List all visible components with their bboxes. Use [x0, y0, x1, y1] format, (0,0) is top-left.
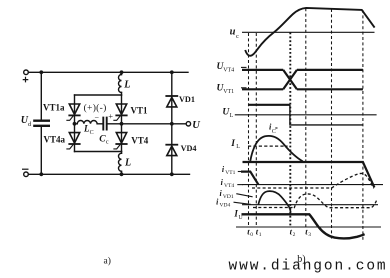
svg-text:C: C: [90, 130, 94, 136]
svg-text:0: 0: [250, 232, 253, 238]
svg-text:I: I: [230, 139, 235, 149]
svg-text:L: L: [230, 113, 234, 119]
svg-text:VD1: VD1: [179, 95, 195, 104]
svg-text:1: 1: [259, 232, 262, 238]
svg-text:VT4: VT4: [223, 68, 234, 74]
svg-text:C: C: [272, 129, 276, 135]
svg-text:c: c: [236, 33, 239, 40]
svg-text:(+)(-): (+)(-): [84, 103, 107, 114]
svg-text:VD4: VD4: [181, 144, 197, 153]
svg-text:a): a): [104, 256, 111, 267]
svg-text:VD1: VD1: [223, 194, 234, 200]
svg-text:L: L: [236, 144, 240, 150]
svg-text:VT4a: VT4a: [44, 135, 66, 145]
svg-text:+: +: [108, 111, 113, 121]
svg-text:L: L: [124, 158, 131, 169]
svg-text:VD4: VD4: [220, 202, 231, 208]
svg-text:u: u: [230, 26, 236, 37]
svg-text:www.diangon.com: www.diangon.com: [229, 259, 388, 275]
svg-text:c: c: [106, 139, 109, 146]
svg-text:VT4: VT4: [131, 135, 149, 145]
svg-text:2: 2: [293, 232, 296, 238]
svg-text:−: −: [95, 113, 100, 122]
svg-text:3: 3: [308, 232, 311, 238]
svg-text:VT1a: VT1a: [43, 103, 65, 113]
svg-text:VT1: VT1: [131, 105, 149, 115]
svg-text:VT4: VT4: [224, 183, 234, 189]
svg-text:L: L: [123, 80, 130, 91]
svg-text:VT1: VT1: [223, 89, 234, 95]
svg-text:U: U: [238, 215, 243, 221]
svg-text:VT1: VT1: [225, 170, 235, 176]
